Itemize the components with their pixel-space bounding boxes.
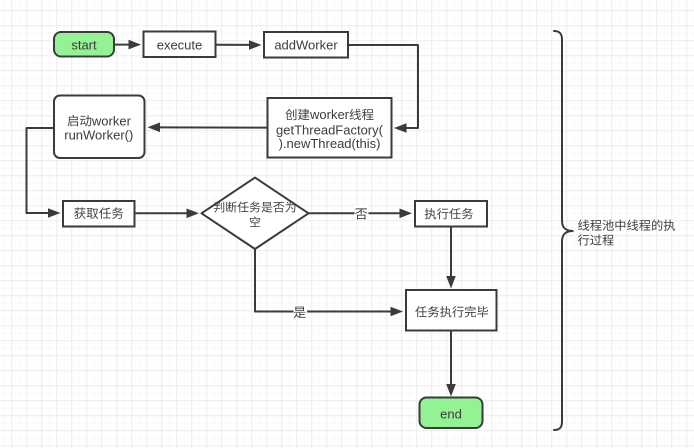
wire task-done to end xyxy=(446,331,456,397)
brace thread-pool-process xyxy=(554,31,574,430)
wire addWorker to create-worker xyxy=(348,45,418,133)
node end xyxy=(420,398,483,429)
wire decision no to run-task xyxy=(309,206,413,220)
node task-done xyxy=(406,290,497,331)
wire start to execute xyxy=(114,40,141,50)
node start xyxy=(54,32,114,57)
svg-text:).newThread(this): ).newThread(this) xyxy=(279,136,381,151)
svg-text:worker: worker xyxy=(91,113,132,128)
svg-text:runWorker(): runWorker() xyxy=(64,128,133,143)
node addWorker xyxy=(264,32,348,58)
node get-task xyxy=(63,201,135,227)
node execute xyxy=(144,32,216,58)
node start-worker runWorker xyxy=(54,96,145,159)
node run-task xyxy=(415,201,487,227)
wire run-task to task-done xyxy=(446,227,456,289)
wire execute to addWorker xyxy=(216,40,262,50)
label thread-pool-execution-process xyxy=(578,219,675,245)
svg-text:end: end xyxy=(440,406,462,421)
svg-text:start: start xyxy=(71,38,97,53)
node create-worker-thread xyxy=(268,98,392,158)
wire start-worker to get-task xyxy=(27,128,61,218)
wire decision yes to task-done xyxy=(255,249,403,319)
decision is-task-empty xyxy=(202,178,309,249)
wire create-worker to start-worker xyxy=(148,123,268,133)
wire get-task to decision xyxy=(135,209,200,219)
svg-text:execute: execute xyxy=(157,38,203,53)
svg-text:worker: worker xyxy=(309,107,350,122)
svg-text:addWorker: addWorker xyxy=(274,37,338,52)
